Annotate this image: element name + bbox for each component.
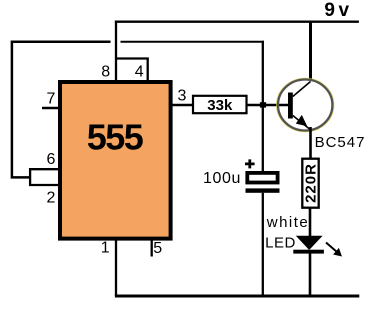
- wire node column upper (to junction and cap): [262, 41, 264, 172]
- wire base lead: [247, 104, 289, 107]
- svg-text:white: white: [266, 214, 310, 231]
- svg-text:4: 4: [135, 64, 144, 81]
- transistor Q1 collector diagonal: [293, 82, 311, 97]
- wire pin 5 stub: [151, 240, 153, 257]
- svg-text:3: 3: [178, 87, 187, 104]
- wire LED to ground rail: [309, 252, 312, 296]
- wire cap to ground rail: [262, 193, 264, 296]
- svg-text:9v: 9v: [324, 0, 352, 21]
- svg-text:33k: 33k: [207, 97, 233, 114]
- transistor Q1 base bar: [288, 93, 293, 119]
- svg-text:BC547: BC547: [315, 134, 366, 151]
- svg-text:555: 555: [87, 117, 144, 158]
- transistor Q1 circle yellow halo: [277, 79, 334, 132]
- capacitor C1 plus sign: [245, 159, 255, 168]
- wire emitter to 220R: [309, 127, 312, 160]
- wire feedback right segment: [121, 41, 264, 43]
- transistor Q1 emitter diagonal: [293, 116, 310, 130]
- wire collector to rail: [309, 22, 312, 80]
- wire 220R to LED: [309, 208, 312, 237]
- svg-text:2: 2: [46, 190, 55, 207]
- wire feedback left segment and loop to pins 6,2: [12, 42, 111, 178]
- svg-text:7: 7: [46, 91, 55, 108]
- svg-text:100u: 100u: [203, 170, 241, 187]
- LED D1 cathode bar: [293, 250, 324, 254]
- LED D1 anode triangle: [296, 236, 323, 250]
- pins 6 and 2 tie box: [30, 169, 58, 185]
- wire bottom ground rail: [115, 295, 359, 298]
- wire pin 4 jog to pin 8 wire: [116, 59, 148, 81]
- svg-text:5: 5: [153, 240, 162, 257]
- svg-text:8: 8: [101, 63, 110, 80]
- svg-text:220R: 220R: [302, 163, 319, 203]
- IC 555 body: [60, 82, 171, 239]
- wire pin 7 stub: [42, 107, 60, 110]
- transistor Q1 emitter arrowhead: [296, 115, 307, 126]
- resistor R2 220R: [302, 159, 318, 208]
- junction node A dot: [260, 102, 266, 107]
- capacitor C1 bottom plate: [246, 188, 280, 192]
- transistor Q1 circle: [278, 80, 332, 131]
- svg-text:LED: LED: [265, 234, 296, 251]
- resistor R1 33k: [193, 96, 247, 113]
- svg-text:1: 1: [101, 240, 110, 257]
- capacitor C1 top plate: [247, 173, 277, 183]
- wire pin 1 to ground rail: [115, 240, 117, 296]
- LED D1 emission arrow: [326, 243, 337, 253]
- wire pin 8 to rail: [115, 21, 117, 81]
- svg-text:6: 6: [46, 151, 55, 168]
- wire pin 3 lead: [171, 104, 193, 107]
- wire top 9v rail: [115, 21, 359, 23]
